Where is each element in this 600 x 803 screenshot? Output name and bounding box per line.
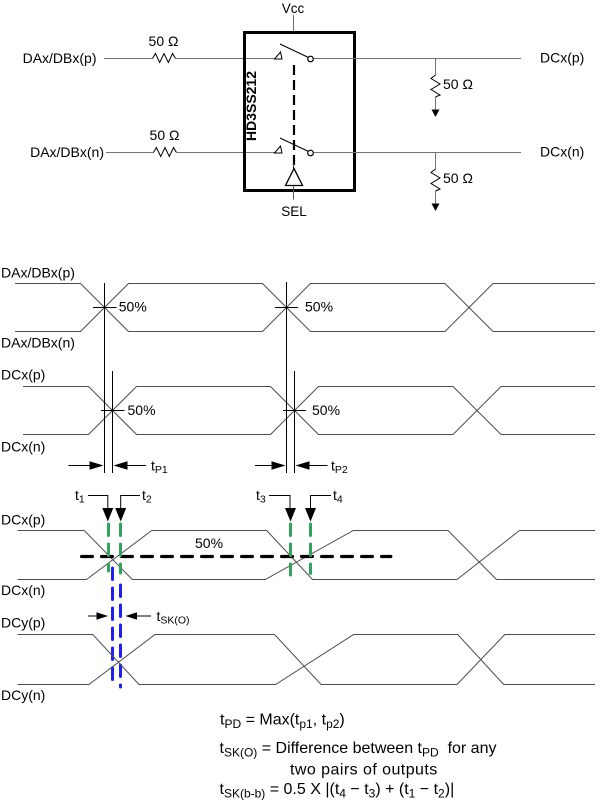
svg-text:50%: 50% <box>305 299 333 315</box>
waveform DCx(n) trace set2 <box>23 387 595 435</box>
label DAx/DBx(n) input <box>30 144 104 160</box>
svg-text:50 Ω: 50 Ω <box>443 170 473 186</box>
svg-text:tP1: tP1 <box>151 458 168 477</box>
wire Vcc stem <box>293 15 295 32</box>
vertical reference line input crossing 2 <box>286 282 288 473</box>
svg-text:50%: 50% <box>128 402 156 418</box>
wire input n left <box>106 152 154 154</box>
label waveform DAx/DBx(p) <box>1 265 75 281</box>
svg-text:t2: t2 <box>142 487 152 506</box>
svg-text:DCx(n): DCx(n) <box>1 582 45 598</box>
waveform DCx(n) trace set3 <box>18 531 596 580</box>
50% reference dashed line <box>82 535 391 557</box>
marker t3 <box>256 487 296 522</box>
svg-text:50%: 50% <box>195 535 223 551</box>
wire input p left <box>104 58 153 60</box>
label waveform DCx(p) set2 <box>1 367 45 383</box>
ground arrow (p) <box>432 110 440 118</box>
marker t2 <box>115 487 152 522</box>
label waveform DAx/DBx(n) <box>1 334 75 350</box>
svg-text:DCx(p): DCx(p) <box>540 50 584 66</box>
blue marker line DCy second <box>119 585 122 687</box>
waveform DCx(p) trace set3 <box>18 531 596 580</box>
formula tSK(b-b) <box>220 781 455 801</box>
svg-text:SEL: SEL <box>281 204 307 219</box>
label waveform DCx(n) set3 <box>1 582 45 598</box>
buffer SEL driver <box>286 169 303 186</box>
switch S2 (n path) <box>275 138 314 156</box>
resistor R3 50 ohm pulldown (p) <box>431 59 473 111</box>
formula tSK(O) line 1 <box>220 740 497 760</box>
svg-text:Vcc: Vcc <box>282 1 305 16</box>
label waveform DCy(n) <box>1 687 45 703</box>
formula tPD <box>220 712 345 732</box>
svg-text:t4: t4 <box>333 487 343 506</box>
svg-text:DCx(n): DCx(n) <box>1 438 45 454</box>
resistor R2 50 ohm series (n) <box>150 127 180 157</box>
wire input n right <box>177 152 275 154</box>
svg-text:DCx(n): DCx(n) <box>540 144 584 160</box>
label DAx/DBx(p) input <box>23 50 97 66</box>
svg-text:t3: t3 <box>256 487 266 506</box>
label DCx(n) output <box>540 144 584 160</box>
IC U1 HD3SS212 box <box>243 33 355 191</box>
svg-text:tP2: tP2 <box>331 458 348 477</box>
label DCx(p) output <box>540 50 584 66</box>
svg-text:50 Ω: 50 Ω <box>149 33 179 49</box>
resistor R4 50 ohm pulldown (n) <box>431 153 473 205</box>
waveform DCy(n) trace <box>18 635 596 685</box>
50% tick output crossing 2 <box>283 402 340 418</box>
50% tick input crossing 1 <box>93 299 147 315</box>
svg-text:tSK(b-b) = 0.5 X |(t4 − t3) +: tSK(b-b) = 0.5 X |(t4 − t3) + (t1 − t2)| <box>220 781 455 801</box>
marker tSK(O) <box>88 608 190 627</box>
svg-text:DAx/DBx(p): DAx/DBx(p) <box>1 265 75 281</box>
switch S1 (p path) <box>275 44 314 62</box>
marker t1 <box>75 487 113 522</box>
green marker line t4 <box>309 524 312 574</box>
formula tSK(O) line 2 <box>290 762 438 779</box>
50% tick output crossing 1 <box>101 402 156 418</box>
control dashed line SEL to switches <box>292 65 295 169</box>
node Vcc <box>282 1 305 16</box>
wire input p right <box>176 58 275 60</box>
waveform DAx/DBx(n) trace <box>15 284 595 332</box>
label waveform DCx(n) set2 <box>1 438 45 454</box>
node SEL <box>281 204 307 219</box>
svg-text:DAx/DBx(p): DAx/DBx(p) <box>23 50 97 66</box>
wire output n <box>314 152 522 154</box>
green marker line t1 <box>107 524 110 571</box>
svg-text:50%: 50% <box>312 402 340 418</box>
svg-text:DCy(n): DCy(n) <box>1 687 45 703</box>
svg-text:tSK(O) = Difference between tP: tSK(O) = Difference between tPD for any <box>220 740 497 760</box>
vertical reference line input crossing 1 <box>104 283 106 473</box>
svg-text:t1: t1 <box>75 487 85 506</box>
green marker line t3 <box>289 524 292 575</box>
marker tP2 <box>255 458 348 477</box>
svg-text:50 Ω: 50 Ω <box>443 76 473 92</box>
50% tick input crossing 2 <box>275 299 333 315</box>
svg-text:two pairs of outputs: two pairs of outputs <box>290 762 438 779</box>
waveform DCy(p) trace <box>18 635 596 685</box>
blue marker line DCy first <box>111 568 114 683</box>
label waveform DCy(p) <box>1 615 45 631</box>
marker tP1 <box>69 458 168 477</box>
waveform DCx(p) trace set2 <box>23 387 595 435</box>
svg-text:DAx/DBx(n): DAx/DBx(n) <box>1 334 75 350</box>
wire output p <box>314 58 522 60</box>
resistor R1 50 ohm series (p) <box>149 33 179 63</box>
svg-text:50%: 50% <box>119 299 147 315</box>
label waveform DCx(p) set3 <box>1 512 45 528</box>
svg-text:tSK(O): tSK(O) <box>157 608 190 627</box>
vertical reference line output crossing 2 <box>294 371 296 473</box>
svg-text:DCx(p): DCx(p) <box>1 367 45 383</box>
svg-text:DAx/DBx(n): DAx/DBx(n) <box>30 144 104 160</box>
svg-text:HD3SS212: HD3SS212 <box>243 71 259 141</box>
svg-text:DCy(p): DCy(p) <box>1 615 45 631</box>
marker t4 <box>305 487 343 522</box>
svg-text:tPD = Max(tp1, tp2): tPD = Max(tp1, tp2) <box>220 712 345 732</box>
vertical reference line output crossing 1 <box>112 371 114 473</box>
waveform DAx/DBx(p) trace <box>15 284 595 332</box>
wire SEL stem <box>293 186 295 200</box>
ground arrow (n) <box>432 204 440 212</box>
svg-text:50 Ω: 50 Ω <box>150 127 180 143</box>
green marker line t2 <box>119 524 122 573</box>
svg-text:DCx(p): DCx(p) <box>1 512 45 528</box>
